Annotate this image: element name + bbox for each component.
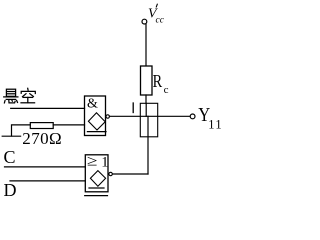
wire floating input to U1 — [11, 107, 85, 109]
svg-text:D: D — [4, 180, 17, 200]
glyph 空 — [21, 88, 35, 103]
wire D to U2 — [10, 180, 85, 182]
svg-text:C: C — [4, 147, 16, 167]
wired-AND junction box — [140, 103, 157, 137]
output bubble of U1 — [106, 115, 109, 118]
svg-text:1: 1 — [101, 154, 108, 170]
wire vertical out of junction (lower) to NOR output wire — [147, 116, 149, 174]
wire Vcc to Rc — [145, 24, 147, 66]
svg-text:&: & — [87, 97, 98, 112]
svg-text:c: c — [164, 84, 169, 96]
extra bar below U2 — [85, 195, 108, 197]
glyph 悬 — [4, 89, 18, 103]
wire U2 output to junction (horizontal) — [113, 173, 148, 175]
wire resistor left lead — [12, 125, 31, 136]
diamond underline of U1 — [87, 131, 106, 133]
wire resistor to U1 lower input — [53, 124, 84, 126]
ground — [2, 135, 20, 137]
resistor Rc — [141, 66, 169, 96]
wire C to U2 — [5, 166, 86, 168]
wire vertical into junction (upper) — [145, 103, 147, 116]
wire main output horizontal — [110, 115, 190, 117]
resistor 270Ω — [22, 123, 62, 148]
svg-text:11: 11 — [208, 118, 223, 132]
label 1 — [132, 103, 134, 113]
svg-text:R: R — [153, 71, 163, 91]
open-collector diamond of U1 — [88, 113, 105, 130]
diamond underline of U2 — [89, 187, 104, 189]
output bubble of U2 — [109, 172, 112, 175]
svg-text:cc: cc — [156, 16, 165, 26]
power terminal V'cc — [142, 4, 165, 25]
svg-text:≥: ≥ — [87, 154, 98, 170]
svg-text:270Ω: 270Ω — [22, 129, 62, 148]
open-collector NAND gate U1 — [85, 96, 110, 136]
open-collector diamond of U2 — [90, 171, 105, 187]
wire Rc to junction box — [145, 95, 147, 104]
input label 悬空 (floating) — [4, 88, 36, 103]
output terminal Y11 — [190, 104, 223, 131]
open-collector NOR gate U2 — [85, 154, 113, 196]
